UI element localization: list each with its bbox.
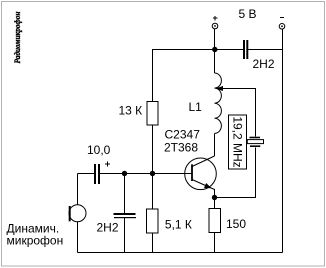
junction emitter node [212,195,217,200]
svg-text:150: 150 [226,217,246,231]
inductor L1 top lead [214,50,216,74]
wire + terminal to rail [214,29,216,50]
wire emitter node to 150 [214,198,216,209]
transistor emitter arrow [204,183,212,188]
wire bottom rail [78,252,283,254]
terminal + (plus supply) [212,16,218,29]
svg-text:5,1 К: 5,1 К [165,217,192,231]
inductor L1 bottom lead [214,133,216,156]
transistor collector lead [192,156,215,167]
svg-text:13 К: 13 К [119,104,143,118]
svg-text:10,0: 10,0 [87,143,111,157]
svg-text:5 В: 5 В [239,7,257,21]
wire mic to bottom rail [77,222,79,253]
svg-text:19,2 MHz: 19,2 MHz [231,116,245,167]
resistor 5,1 К [147,209,159,233]
wire left column top [152,50,154,102]
wire left column to mic [77,174,79,205]
wire crystal bottom to emitter node [215,148,256,198]
resistor 13 К [147,102,158,126]
transistor VT1 circle [185,158,217,190]
svg-text:Радиомикрофон: Радиомикрофон [12,11,22,63]
wire 5,1К to bottom rail [152,233,154,252]
wire base [153,173,192,175]
inductor L1 coil [215,73,222,133]
crystal ZQ1 19,2 MHz [247,138,263,147]
terminal - (minus supply) [279,18,285,30]
capacitor 2Н2 top [243,40,248,59]
junction supply node [212,47,217,52]
capacitor 2Н2 bottom [114,174,137,253]
label box 19,2 MHz [229,115,247,169]
wire mic row left [78,173,95,175]
svg-text:2Т368: 2Т368 [164,141,198,155]
wire top rail right segment [248,49,283,51]
wire base junction to 5,1К [152,174,154,209]
transistor base bar [191,164,193,181]
junction cap node [122,171,127,176]
capacitor 10,0 [94,161,110,184]
svg-text:2Н2: 2Н2 [97,221,119,235]
svg-text:2Н2: 2Н2 [253,57,275,71]
arrowhead tap [216,86,224,91]
svg-text:L1: L1 [189,100,203,114]
junction base node [150,171,155,176]
wire right rail from - terminal down [282,29,284,252]
wire top rail left segment [152,49,243,51]
svg-text:микрофон: микрофон [7,233,64,247]
wire 13К to base junction [152,125,154,174]
resistor 150 [209,209,221,233]
wire 150 to bottom rail [214,233,216,253]
transistor emitter lead [192,180,215,198]
microphone BM1 [69,205,86,222]
wire mic row mid [100,173,153,175]
wire coil tap to crystal [218,89,256,137]
label Динамич. микрофон [7,222,64,248]
